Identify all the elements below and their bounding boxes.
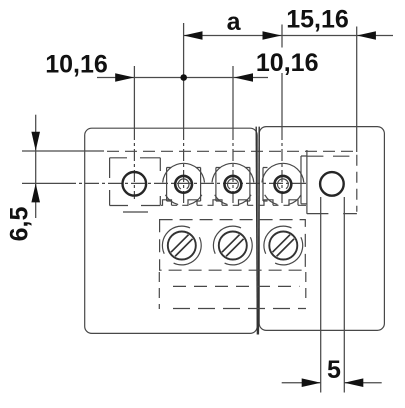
svg-text:10,16: 10,16 [45, 51, 108, 79]
svg-text:6,5: 6,5 [6, 207, 34, 242]
svg-text:5: 5 [327, 356, 341, 384]
svg-text:15,16: 15,16 [286, 6, 349, 34]
svg-text:10,16: 10,16 [256, 49, 319, 77]
svg-text:a: a [227, 8, 242, 36]
